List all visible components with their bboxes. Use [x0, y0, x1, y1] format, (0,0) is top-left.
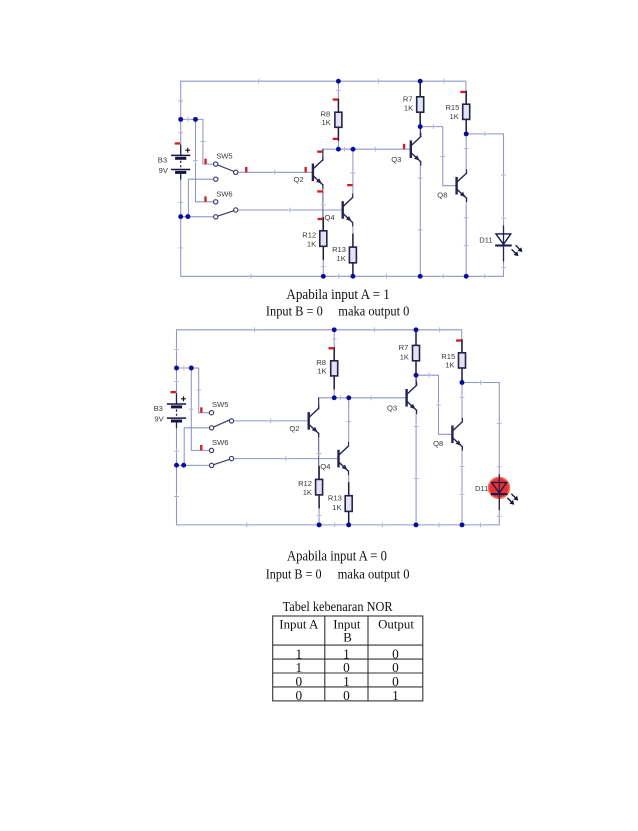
svg-text:maka output 0: maka output 0 — [338, 303, 409, 318]
svg-text:1K: 1K — [303, 488, 312, 497]
svg-text:R7: R7 — [403, 94, 413, 103]
svg-text:Input B = 0: Input B = 0 — [266, 566, 322, 581]
svg-text:D11: D11 — [479, 235, 492, 244]
svg-text:R7: R7 — [399, 343, 409, 352]
svg-text:1K: 1K — [307, 239, 316, 248]
svg-text:Q3: Q3 — [391, 155, 401, 164]
svg-text:1K: 1K — [322, 118, 331, 127]
svg-text:0: 0 — [392, 660, 399, 675]
svg-text:1: 1 — [295, 646, 302, 661]
svg-text:Q8: Q8 — [433, 439, 443, 448]
svg-text:Tabel kebenaran NOR: Tabel kebenaran NOR — [283, 599, 393, 614]
svg-text:R13: R13 — [328, 493, 342, 502]
svg-text:1: 1 — [295, 660, 302, 675]
svg-text:1: 1 — [343, 674, 350, 689]
svg-text:9V: 9V — [159, 166, 169, 175]
svg-text:B3: B3 — [158, 155, 167, 164]
svg-text:Q4: Q4 — [320, 462, 330, 471]
svg-text:1: 1 — [392, 688, 399, 703]
svg-text:1K: 1K — [445, 361, 454, 370]
svg-text:R13: R13 — [332, 245, 346, 254]
svg-text:B3: B3 — [154, 404, 163, 413]
svg-text:D11: D11 — [475, 484, 488, 493]
svg-text:Input A: Input A — [279, 618, 319, 632]
svg-text:0: 0 — [392, 646, 399, 661]
svg-text:maka output 0: maka output 0 — [338, 566, 410, 581]
svg-text:Apabila input A = 1: Apabila input A = 1 — [286, 287, 389, 303]
svg-text:R15: R15 — [445, 103, 459, 112]
svg-text:1K: 1K — [337, 254, 346, 263]
svg-text:1K: 1K — [450, 112, 459, 121]
svg-text:Q2: Q2 — [289, 424, 299, 433]
svg-text:1K: 1K — [404, 104, 413, 113]
svg-text:SW6: SW6 — [212, 438, 228, 447]
svg-text:1K: 1K — [400, 352, 409, 361]
svg-text:0: 0 — [392, 674, 399, 689]
svg-text:SW5: SW5 — [216, 152, 232, 161]
svg-text:Q8: Q8 — [437, 191, 447, 200]
svg-text:Apabila input A = 0: Apabila input A = 0 — [287, 549, 387, 565]
svg-text:1K: 1K — [317, 367, 326, 376]
svg-text:R12: R12 — [302, 231, 316, 240]
svg-text:0: 0 — [295, 688, 302, 703]
svg-text:Output: Output — [378, 618, 414, 632]
svg-text:0: 0 — [295, 674, 302, 689]
svg-text:Q4: Q4 — [325, 213, 335, 222]
svg-text:R12: R12 — [298, 479, 312, 488]
svg-text:B: B — [343, 630, 352, 644]
svg-text:1: 1 — [343, 646, 350, 661]
svg-text:1K: 1K — [332, 503, 341, 512]
svg-text:R15: R15 — [441, 352, 455, 361]
svg-text:0: 0 — [343, 660, 350, 675]
svg-text:0: 0 — [343, 688, 350, 703]
svg-text:Q2: Q2 — [294, 175, 304, 184]
svg-text:SW6: SW6 — [216, 189, 232, 198]
svg-text:Input B = 0: Input B = 0 — [266, 303, 323, 318]
svg-text:9V: 9V — [154, 414, 164, 423]
svg-text:SW5: SW5 — [212, 400, 228, 409]
svg-text:Q3: Q3 — [387, 403, 397, 412]
